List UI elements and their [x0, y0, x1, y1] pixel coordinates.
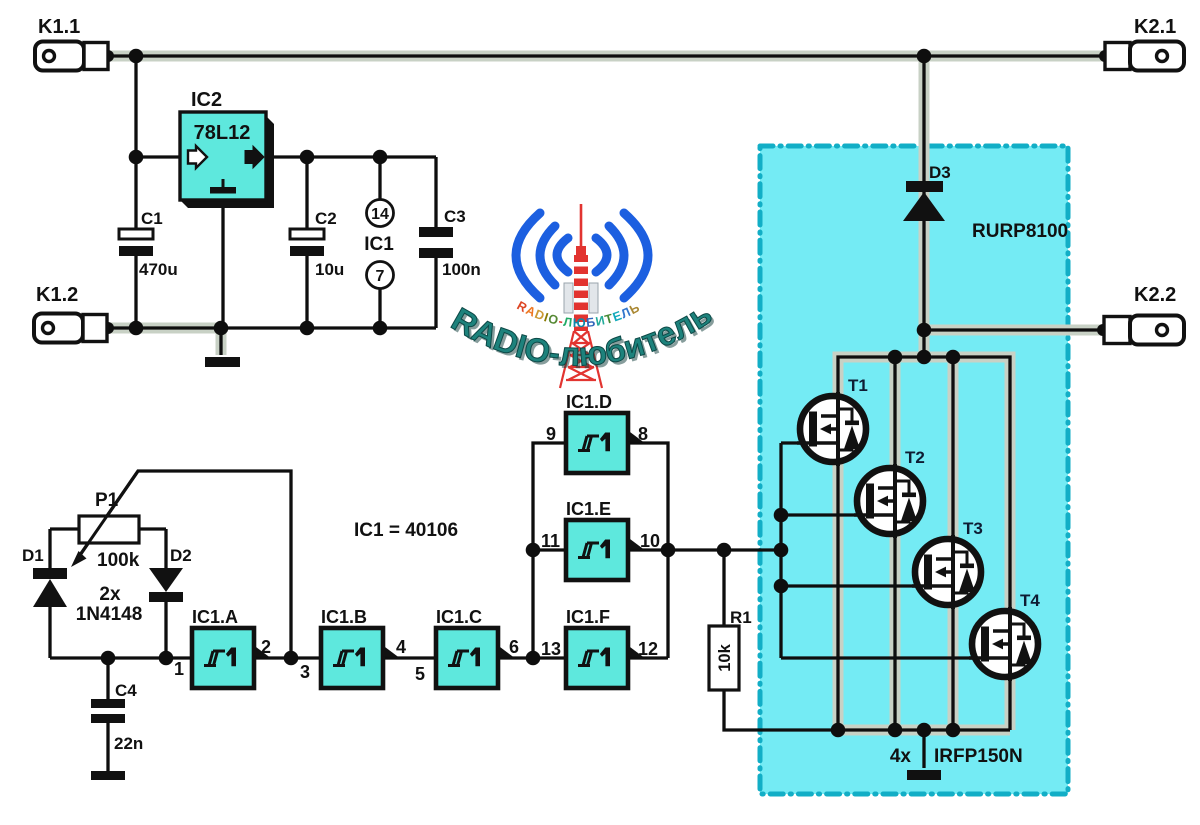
- wire bottom-left rail: [106, 328, 222, 355]
- svg-text:IC2: IC2: [191, 89, 222, 111]
- node K2.2 tap: [1097, 324, 1109, 336]
- potentiometer P1 100k: [71, 474, 140, 571]
- svg-text:IC1.A: IC1.A: [192, 607, 238, 627]
- svg-text:T3: T3: [963, 519, 983, 538]
- svg-text:10: 10: [640, 531, 660, 551]
- wire C1 column: [134, 56, 137, 328]
- node feedback tap: [284, 651, 299, 666]
- capacitor C1 470u: [119, 209, 178, 279]
- diode D1 1N4148: [22, 546, 67, 607]
- svg-text:C2: C2: [315, 209, 337, 228]
- ground MOSFET source bus: [907, 770, 941, 780]
- wire parallel input bus: [533, 443, 566, 658]
- wire C4 column: [106, 658, 109, 771]
- node gate bus input: [774, 543, 789, 558]
- connector K1.1: [35, 16, 108, 71]
- svg-text:4: 4: [396, 637, 406, 657]
- ground below IC2: [205, 357, 240, 367]
- node source bus T2: [888, 723, 903, 738]
- node drain bus T3: [946, 350, 961, 365]
- wire K1.2 ground rail casing: [106, 328, 222, 355]
- svg-text:100k: 100k: [97, 550, 140, 571]
- svg-text:IC1: IC1: [364, 234, 394, 255]
- wire main vertical: [922, 54, 925, 357]
- wire gnd rail plain part: [222, 326, 436, 329]
- capacitor C4 22n: [91, 681, 143, 753]
- wire IC1 pin14: [378, 157, 381, 200]
- svg-text:IC1.B: IC1.B: [321, 607, 367, 627]
- svg-text:1: 1: [174, 659, 184, 679]
- wire drain/source bus: [838, 357, 1010, 730]
- svg-text:6: 6: [509, 637, 519, 657]
- svg-text:1N4148: 1N4148: [76, 604, 143, 625]
- node source bus T1: [831, 723, 846, 738]
- svg-text:T1: T1: [848, 376, 868, 395]
- svg-text:T2: T2: [905, 448, 925, 467]
- svg-text:10k: 10k: [716, 643, 734, 671]
- wire IC2 output rail: [264, 155, 436, 158]
- svg-text:IC1.F: IC1.F: [566, 607, 610, 627]
- wire gate T3: [781, 584, 930, 587]
- schmitt inverter IC1.C: [436, 607, 513, 688]
- svg-text:13: 13: [541, 639, 561, 659]
- node K2.2 branch: [917, 323, 932, 338]
- IC1 power pin 7: [367, 262, 394, 289]
- wire gate T4: [781, 656, 987, 659]
- node gate bus T3: [774, 579, 789, 594]
- node drain bus T2: [888, 350, 903, 365]
- connector K2.2: [1104, 284, 1184, 345]
- wire main vertical to D3 casing: [919, 54, 930, 357]
- svg-text:C3: C3: [444, 207, 466, 226]
- svg-text:7: 7: [376, 268, 385, 285]
- svg-text:IRFP150N: IRFP150N: [934, 746, 1023, 767]
- svg-text:P1: P1: [95, 490, 119, 511]
- wire K2.2 branch casing: [924, 325, 1104, 336]
- svg-text:470u: 470u: [139, 260, 178, 279]
- wire IC2 input: [136, 155, 182, 158]
- node D3 feed: [917, 49, 932, 64]
- node output bus: [661, 543, 676, 558]
- svg-text:D1: D1: [22, 546, 44, 565]
- capacitor C2 10u: [290, 209, 344, 279]
- wire IC1.B to IC1.C: [383, 656, 436, 659]
- IC1 power pin 14: [367, 200, 394, 227]
- node K1.2 tap: [102, 322, 114, 334]
- node input bus F: [526, 651, 541, 666]
- node R1 top: [717, 543, 732, 558]
- svg-text:8: 8: [638, 424, 648, 444]
- wire C2 column: [305, 157, 308, 328]
- wire IC2 ground pin: [221, 199, 224, 328]
- node K1.1 tap: [102, 50, 114, 62]
- MOSFET T2: [854, 448, 925, 538]
- svg-text:R1: R1: [730, 608, 752, 627]
- node D2 bottom: [159, 651, 174, 666]
- svg-text:K2.1: K2.1: [1134, 16, 1176, 38]
- node K2.1 tap: [1099, 50, 1111, 62]
- svg-text:4x: 4x: [890, 746, 912, 767]
- wire parallel output bus: [628, 443, 668, 658]
- svg-text:100n: 100n: [442, 260, 481, 279]
- capacitor C3 100n: [419, 207, 481, 279]
- svg-text:3: 3: [300, 662, 310, 682]
- diode D2 1N4148: [149, 546, 192, 602]
- node C4 top: [101, 651, 116, 666]
- schmitt inverter IC1.F: [566, 607, 643, 688]
- svg-text:C4: C4: [115, 681, 137, 700]
- schmitt inverter IC1.B: [321, 607, 398, 688]
- svg-text:9: 9: [546, 424, 556, 444]
- MOSFET T4: [969, 591, 1040, 681]
- voltage regulator IC2 78L12: [180, 89, 274, 208]
- schmitt inverter IC1.E: [566, 499, 643, 580]
- svg-text:IC1.C: IC1.C: [436, 607, 482, 627]
- svg-text:2: 2: [261, 637, 271, 657]
- wire R1 top: [722, 550, 725, 626]
- wire C3 column: [434, 157, 437, 328]
- svg-text:10u: 10u: [315, 260, 344, 279]
- svg-text:12: 12: [638, 639, 658, 659]
- svg-text:D2: D2: [170, 546, 192, 565]
- schmitt inverter IC1.A: [192, 607, 269, 688]
- node IC2 input: [129, 150, 144, 165]
- wire P1 left to D1: [50, 529, 79, 658]
- wire gate T2: [781, 513, 872, 516]
- wire gate T1: [781, 441, 815, 444]
- wire top rail: [105, 54, 1107, 57]
- node IC1 pin14 rail: [373, 150, 388, 165]
- connector K2.1: [1105, 16, 1184, 71]
- wire feedback from IC1.A output to P1 wiper: [80, 471, 291, 658]
- wire drain/source bus casing: [838, 357, 1010, 730]
- wire IC1 pin7: [378, 289, 381, 328]
- svg-text:RURP8100: RURP8100: [972, 221, 1068, 242]
- svg-text:C1: C1: [141, 209, 163, 228]
- wire gate bus: [779, 443, 782, 658]
- svg-text:IC1.E: IC1.E: [566, 499, 611, 519]
- node C2 top: [300, 150, 315, 165]
- MOSFET T3: [912, 519, 983, 609]
- node IC2 ground: [214, 321, 229, 336]
- svg-text:14: 14: [371, 206, 389, 223]
- svg-text:11: 11: [541, 531, 560, 551]
- node gate bus T2: [774, 508, 789, 523]
- node IC1 pin7 rail: [373, 321, 388, 336]
- svg-text:2x: 2x: [99, 584, 121, 605]
- power MOSFET block (cyan dash-dot box): [760, 146, 1068, 794]
- node C1 bottom: [129, 321, 144, 336]
- wire K2.2 branch: [924, 328, 1104, 331]
- wire output to gates: [668, 548, 781, 551]
- logo radio tower: [560, 204, 602, 388]
- connector K1.2: [34, 284, 107, 343]
- svg-text:K1.1: K1.1: [38, 16, 80, 38]
- wire R1 bottom to source bus: [724, 690, 838, 730]
- black wires: [50, 54, 1107, 771]
- MOSFET T1: [797, 376, 868, 466]
- node source bus T3: [946, 723, 961, 738]
- wire K1.1 to K2.1 top rail casing: [105, 51, 1107, 62]
- node C1 top: [129, 49, 144, 64]
- ground below C4: [91, 771, 125, 780]
- wire P1 right to D2: [139, 529, 166, 658]
- svg-text:IC1 = 40106: IC1 = 40106: [354, 520, 458, 541]
- svg-text:22n: 22n: [114, 734, 143, 753]
- wire IC1.A to IC1.B: [254, 656, 321, 659]
- wire gnd stub mosfets: [922, 730, 925, 768]
- svg-text:T4: T4: [1020, 591, 1040, 610]
- svg-text:D3: D3: [929, 163, 951, 182]
- node input bus E: [526, 543, 541, 558]
- wire IC1.C to input bus: [498, 656, 566, 659]
- svg-text:5: 5: [415, 664, 425, 684]
- svg-text:78L12: 78L12: [194, 122, 251, 144]
- schmitt inverter IC1.D: [566, 392, 643, 473]
- svg-text:IC1.D: IC1.D: [566, 392, 612, 412]
- svg-text:K1.2: K1.2: [36, 284, 78, 306]
- diode D3 RURP8100: [903, 163, 1068, 242]
- node source bus ground: [917, 723, 932, 738]
- resistor R1 10k: [709, 608, 752, 690]
- wire oscillator bottom node: [50, 656, 192, 659]
- logo signal arcs: [516, 213, 648, 298]
- node C2 bottom: [300, 321, 315, 336]
- node drain bus feed: [917, 350, 932, 365]
- wire casing underlays (sage): [105, 54, 1107, 730]
- svg-text:K2.2: K2.2: [1134, 284, 1176, 306]
